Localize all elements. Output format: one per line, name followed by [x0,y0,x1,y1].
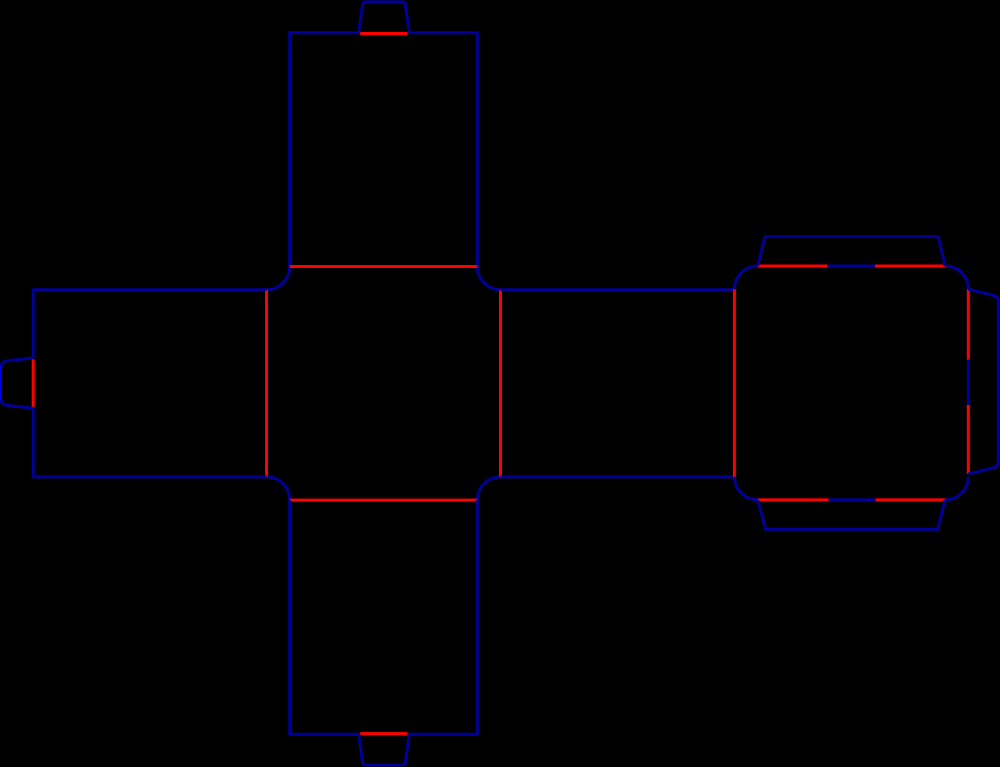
fillet arc central top-right [477,267,500,290]
right panel top cut edge [501,288,735,291]
top tuck tab cut outline [359,2,410,33]
left panel cut outline lower part [33,408,266,477]
lid bottom crease red left segment [758,498,829,501]
right panel bottom cut edge [501,475,735,478]
lid top crease middle cut segment [828,265,875,268]
lid right crease red top segment [967,289,970,360]
fillet arc central top-left [267,267,290,290]
central square right crease [499,290,502,477]
fillet arc lid top-left [734,266,757,289]
lid right crease middle cut segment [967,360,970,405]
central square left crease [265,290,268,477]
lid bottom crease middle cut segment [829,498,876,501]
left panel cut outline [33,290,266,358]
central square bottom crease [290,499,478,502]
left glue tab cut outline lower slant [1,399,33,408]
central square top crease [290,265,478,268]
top tuck tab crease [360,32,407,35]
fillet arc central bottom-left [267,477,290,500]
tuck flap cut outline [968,289,998,474]
fillet arc lid top-right [945,266,968,289]
bottom tuck tab cut outline [359,734,410,765]
left glue tab cut outline upper slant [1,358,33,367]
left glue tab outer bright edge [0,366,2,401]
lid bottom crease red right segment [876,498,945,501]
lid right crease red bottom segment [967,405,970,474]
fillet arc lid bottom-right [945,477,968,500]
top panel cut outline [290,33,359,267]
lid left crease [733,289,736,477]
lid top crease red right segment [875,265,945,268]
bottom tuck tab crease [360,732,407,735]
top dust flap cut outline [758,237,946,266]
fillet arc central bottom-right [477,477,500,500]
lid top crease red left segment [758,265,828,268]
bottom dust flap cut outline [758,500,946,529]
bottom panel cut outline right part [409,500,477,734]
bottom panel cut outline [290,500,359,734]
fillet arc lid bottom-left [734,477,757,500]
top panel cut outline right part [409,33,477,267]
left glue tab crease [32,359,35,406]
